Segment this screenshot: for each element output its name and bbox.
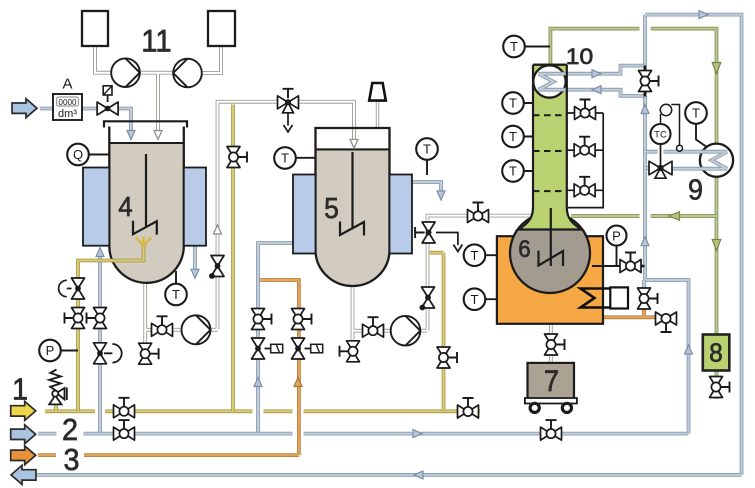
instrument Q reactor 4: [67, 144, 89, 166]
instrument T reactor 4: [165, 284, 187, 306]
instrument T column 2: [502, 126, 524, 148]
actuator orange riser: [311, 344, 323, 353]
reactor 4 vessel: [109, 143, 184, 283]
svg-text:5: 5: [324, 192, 339, 224]
valve blue riser reactor 4: [94, 308, 107, 329]
arrow orange riser mid: [294, 378, 302, 387]
svg-text:10: 10: [566, 44, 593, 68]
svg-text:4: 4: [118, 191, 132, 222]
instrument P reactor 6: [607, 226, 627, 246]
feed arrow 3: [11, 446, 36, 465]
valve reactor 5 riser: [422, 287, 435, 308]
box K1: [82, 11, 108, 46]
svg-text:1: 1: [12, 373, 28, 407]
wire yellow branch to reactor 4 spray: [78, 244, 144, 411]
vent valve reactor 6: [620, 260, 641, 273]
svg-text:6: 6: [518, 235, 530, 262]
wire column overhead green: [550, 29, 716, 335]
svg-text:TC: TC: [654, 129, 667, 140]
instrument T reactor 5 left: [274, 147, 296, 169]
wire blue riser to reactor 5 jacket: [258, 243, 294, 434]
3-way valve yellow branch: [72, 278, 85, 299]
feed arrow A: [12, 99, 37, 118]
arrow blue riser mid: [254, 378, 262, 387]
wire stub jacket drain valve: [642, 280, 646, 290]
wire box 8 outlet: [715, 370, 719, 399]
instrument T column 3: [502, 160, 524, 182]
valve stem ticks cooling riser: [644, 66, 647, 97]
cart wheel left: [530, 403, 539, 412]
sample valve 2: [574, 144, 595, 157]
wire stub reactor 6 vent: [641, 264, 646, 268]
svg-text:T: T: [281, 151, 289, 166]
drain arrow from 3-way valve reactor 5 top: [287, 109, 289, 126]
wire feed A to reactor 4: [40, 109, 131, 135]
TC capillary loop: [661, 105, 680, 146]
svg-text:9: 9: [688, 174, 703, 206]
svg-text:3: 3: [63, 443, 79, 477]
svg-text:T: T: [509, 129, 517, 144]
3-way valve reactor 5 feed: [278, 96, 299, 109]
arrow recycle riser: [214, 225, 222, 234]
svg-text:T: T: [509, 164, 517, 179]
valve yellow branch: [72, 308, 85, 329]
column 10 body: [519, 65, 582, 230]
actuator blue riser: [271, 344, 283, 353]
arrow cooling riser lower: [641, 237, 649, 246]
svg-text:T: T: [509, 96, 517, 111]
svg-text:dm³: dm³: [58, 108, 77, 120]
sample valve 1: [575, 107, 596, 120]
valve cooling riser top: [639, 71, 652, 92]
wire blue riser to reactor 4 jacket: [98, 254, 102, 434]
wire reactor 5 outlet loop: [353, 216, 532, 343]
valve header 1 left: [114, 405, 135, 418]
wire exchanger 9 coil loop: [645, 152, 727, 169]
wire condenser coil: [539, 74, 566, 90]
3-way valve blue riser reactor 4: [94, 343, 107, 364]
wire reactor 6 bottom outlet: [549, 292, 553, 363]
reactor 5 vessel: [316, 149, 390, 286]
valve feed to reactor 6: [468, 210, 489, 223]
instrument stems and misc black lines: [61, 47, 645, 351]
svg-text:7: 7: [544, 365, 559, 398]
wire stub tc valve: [645, 166, 650, 170]
sample valve 3: [574, 184, 595, 197]
svg-text:P: P: [46, 343, 55, 358]
svg-text:0000: 0000: [58, 98, 77, 107]
wire reactor 4 outlet loop: [145, 102, 354, 344]
feed valve A with actuator: [97, 102, 118, 115]
svg-text:T: T: [510, 39, 518, 54]
svg-text:P: P: [612, 228, 621, 243]
flow meter A: [53, 94, 82, 120]
reactor 4 spray nozzle: [136, 237, 151, 247]
reactor 5 left jacket: [293, 175, 316, 254]
instrument T reactor 6 lower: [464, 288, 486, 310]
cart wheel right: [562, 403, 571, 412]
valve header 2 under cart: [541, 427, 562, 440]
svg-text:8: 8: [709, 339, 722, 368]
control valve orange riser: [292, 338, 305, 359]
instrument TC: [651, 124, 671, 144]
arrow green to reactor 6: [669, 212, 680, 221]
return arrow: [11, 465, 36, 484]
reactor 4 right jacket: [184, 168, 206, 246]
drain valve reactor 5: [347, 341, 360, 362]
valve jacket drain riser: [638, 288, 651, 309]
wire yellow feed header 1: [45, 409, 480, 413]
vessel 7 cart: [528, 363, 575, 399]
reactor 5 agitator: [340, 152, 364, 236]
wire funnel stem: [376, 101, 379, 128]
drain valve reactor 4: [139, 343, 152, 364]
reactor 6 agitator: [539, 208, 564, 266]
feed arrow 1: [11, 401, 36, 420]
reactor 6 green cap: [518, 213, 583, 229]
TC control valve: [649, 161, 672, 175]
wire pump header 11 to reactor 4: [95, 46, 221, 134]
drain arrow from 3-way valve riser: [436, 233, 458, 246]
drain valve reactor 6 jacket: [656, 312, 677, 325]
arrow top header: [699, 11, 708, 19]
svg-text:T: T: [471, 248, 479, 263]
valve header 2 left: [114, 427, 135, 440]
arrow feed into reactor 5: [350, 139, 358, 148]
column trays dashed: [533, 115, 567, 191]
valve under box 8: [710, 377, 723, 398]
TC stem: [660, 144, 662, 168]
wire reactor 5 jacket outlet: [412, 182, 441, 193]
valve reactor 4 outlet: [152, 323, 173, 336]
wire reactor 6 jacket drain: [603, 289, 656, 318]
arrow condenser out: [592, 70, 601, 78]
pump reactor 5: [391, 316, 421, 346]
instrument T reactor 5 right: [416, 138, 438, 160]
instrument T exchanger: [685, 102, 707, 124]
valve blue riser mid: [252, 309, 265, 330]
heat exchanger 9: [700, 144, 733, 177]
wire orange feed header 3: [38, 280, 299, 455]
svg-text:Q: Q: [73, 147, 83, 162]
control valve blue riser: [252, 338, 265, 359]
instrument T column top: [503, 36, 525, 58]
arrow reactor 4 jacket outlet: [191, 269, 199, 278]
wire blue feed header 2: [38, 432, 689, 436]
safety relief valve with spring: [54, 404, 58, 411]
box K2: [208, 11, 235, 46]
wire yellow riser mid: [231, 105, 235, 412]
svg-text:T: T: [692, 106, 700, 121]
svg-text:T: T: [172, 287, 180, 302]
valve reactor 6 to cart: [545, 334, 558, 355]
wire blue return header: [37, 473, 742, 477]
svg-text:11: 11: [141, 24, 171, 59]
wire reactor 4 jacket outlet: [193, 246, 197, 271]
T9 stem: [696, 124, 708, 148]
valve header 1 right: [458, 405, 479, 418]
arrow cooling riser upper: [641, 105, 649, 114]
arrow green down to box 8: [712, 240, 721, 251]
arrow return header: [414, 471, 423, 479]
valve orange riser mid: [292, 309, 305, 330]
reactor 4 agitator: [133, 154, 157, 235]
instrument T column 1: [502, 92, 524, 114]
reactor 6 heating jacket: [497, 236, 603, 324]
instrument T reactor 6 upper: [464, 244, 486, 266]
arrow header 2: [413, 430, 422, 438]
arrow pump feed into reactor 4: [154, 131, 162, 140]
arrow feed into reactor 4: [127, 131, 135, 140]
arrow cooling feed riser: [685, 345, 693, 354]
funnel hopper on reactor 5: [369, 83, 386, 101]
3-way valve riser to reactor 6: [422, 222, 435, 243]
arrow into reactor 4 jacket: [96, 248, 104, 257]
svg-text:T: T: [471, 292, 479, 307]
wire yellow riser reactor 5: [430, 253, 444, 412]
svg-text:A: A: [62, 76, 72, 93]
valve yellow riser reactor 5: [437, 347, 450, 368]
arrow reactor 5 jacket outlet: [437, 191, 445, 200]
column sample collector line: [567, 113, 603, 208]
svg-text:T: T: [423, 142, 431, 157]
instrument P left: [39, 340, 61, 362]
box 8: [703, 335, 730, 371]
valve reactor 4 recycle riser: [211, 256, 224, 277]
reactor 4 left jacket: [83, 168, 109, 246]
arrow green down to exchanger: [712, 63, 721, 74]
reactor 6 sphere: [510, 213, 590, 293]
wire condenser loop: [539, 66, 646, 96]
arrow reflux return: [592, 86, 601, 94]
heater element reactor 6: [581, 289, 611, 308]
feed arrow 2: [11, 425, 36, 444]
valve yellow riser mid: [227, 147, 240, 168]
wire cooling water riser right: [645, 15, 742, 475]
pump P11a: [111, 58, 140, 87]
wire exchanger coil: [700, 152, 727, 169]
pump reactor 4: [182, 315, 211, 344]
wire green return to reactor 6: [571, 214, 717, 218]
pump P11b: [173, 59, 202, 88]
condenser on column 10: [533, 65, 565, 97]
reactor 5 right jacket: [390, 175, 413, 254]
reactor 4 lid bracket: [104, 121, 187, 127]
valve reactor 5 outlet: [363, 324, 384, 337]
